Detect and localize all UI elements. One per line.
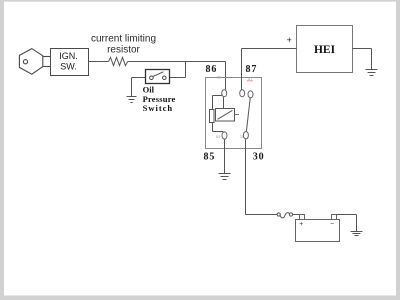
fuse link F1 [277, 213, 299, 218]
wire pin86 down to coil [223, 97, 225, 110]
HEI box [297, 26, 353, 73]
wire resistor to relay 86 drop [128, 61, 226, 63]
wire drop to pin 86 [225, 62, 227, 90]
resistor R1 [109, 57, 128, 65]
coil wiring left [213, 95, 224, 97]
svg-text:87: 87 [246, 64, 258, 75]
switch contacts [150, 72, 167, 80]
svg-text:resistor: resistor [107, 45, 140, 56]
svg-text:SW.: SW. [60, 61, 77, 71]
ground HEI [366, 70, 378, 76]
pin 87a [240, 90, 245, 97]
svg-text:85: 85 [204, 152, 216, 163]
pin 86 [222, 90, 227, 97]
wire HEI to ground [353, 48, 372, 50]
svg-text:+: + [299, 221, 303, 228]
key S1 [19, 49, 50, 75]
svg-text:86: 86 [206, 64, 218, 75]
svg-text:HEI: HEI [314, 44, 336, 56]
wire oil switch to ground [132, 77, 146, 79]
wire HEI to pin 87 [242, 48, 297, 50]
actuator line [235, 114, 240, 116]
svg-text:current limiting: current limiting [91, 33, 156, 44]
svg-text:Switch: Switch [143, 103, 174, 113]
svg-text:+: + [287, 35, 292, 45]
svg-text:30: 30 [253, 152, 265, 163]
wire IGN.SW to resistor [89, 61, 109, 63]
coil core bar [210, 110, 215, 123]
frame border bottom [0, 296, 400, 300]
pin 87 [248, 91, 253, 98]
wire pin85 to ground [224, 139, 226, 174]
wire branch to oil pressure switch [185, 62, 187, 78]
label Oil Pressure Switch [143, 84, 176, 113]
ground oil switch [127, 97, 137, 103]
ground battery [351, 232, 363, 236]
switch arm 87-30 [246, 98, 250, 131]
pin 85 [222, 132, 227, 139]
ground relay 85 [219, 174, 231, 180]
wire pin30 down [245, 139, 247, 214]
ignition switch box [51, 49, 89, 76]
svg-text:−: − [330, 221, 334, 228]
pin 30 [243, 132, 248, 139]
battery BT1 [296, 220, 340, 242]
oil pressure switch box [146, 70, 170, 84]
frame border top [0, 0, 400, 2]
wire battery to ground [337, 214, 357, 216]
svg-text:86: 86 [217, 75, 222, 80]
coil K1 [216, 109, 235, 122]
frame border left [0, 0, 4, 300]
wire to fuse [246, 214, 278, 216]
relay box [206, 78, 262, 149]
svg-text:IGN.: IGN. [59, 51, 78, 61]
svg-text:85: 85 [216, 134, 221, 139]
frame border right [396, 0, 400, 300]
